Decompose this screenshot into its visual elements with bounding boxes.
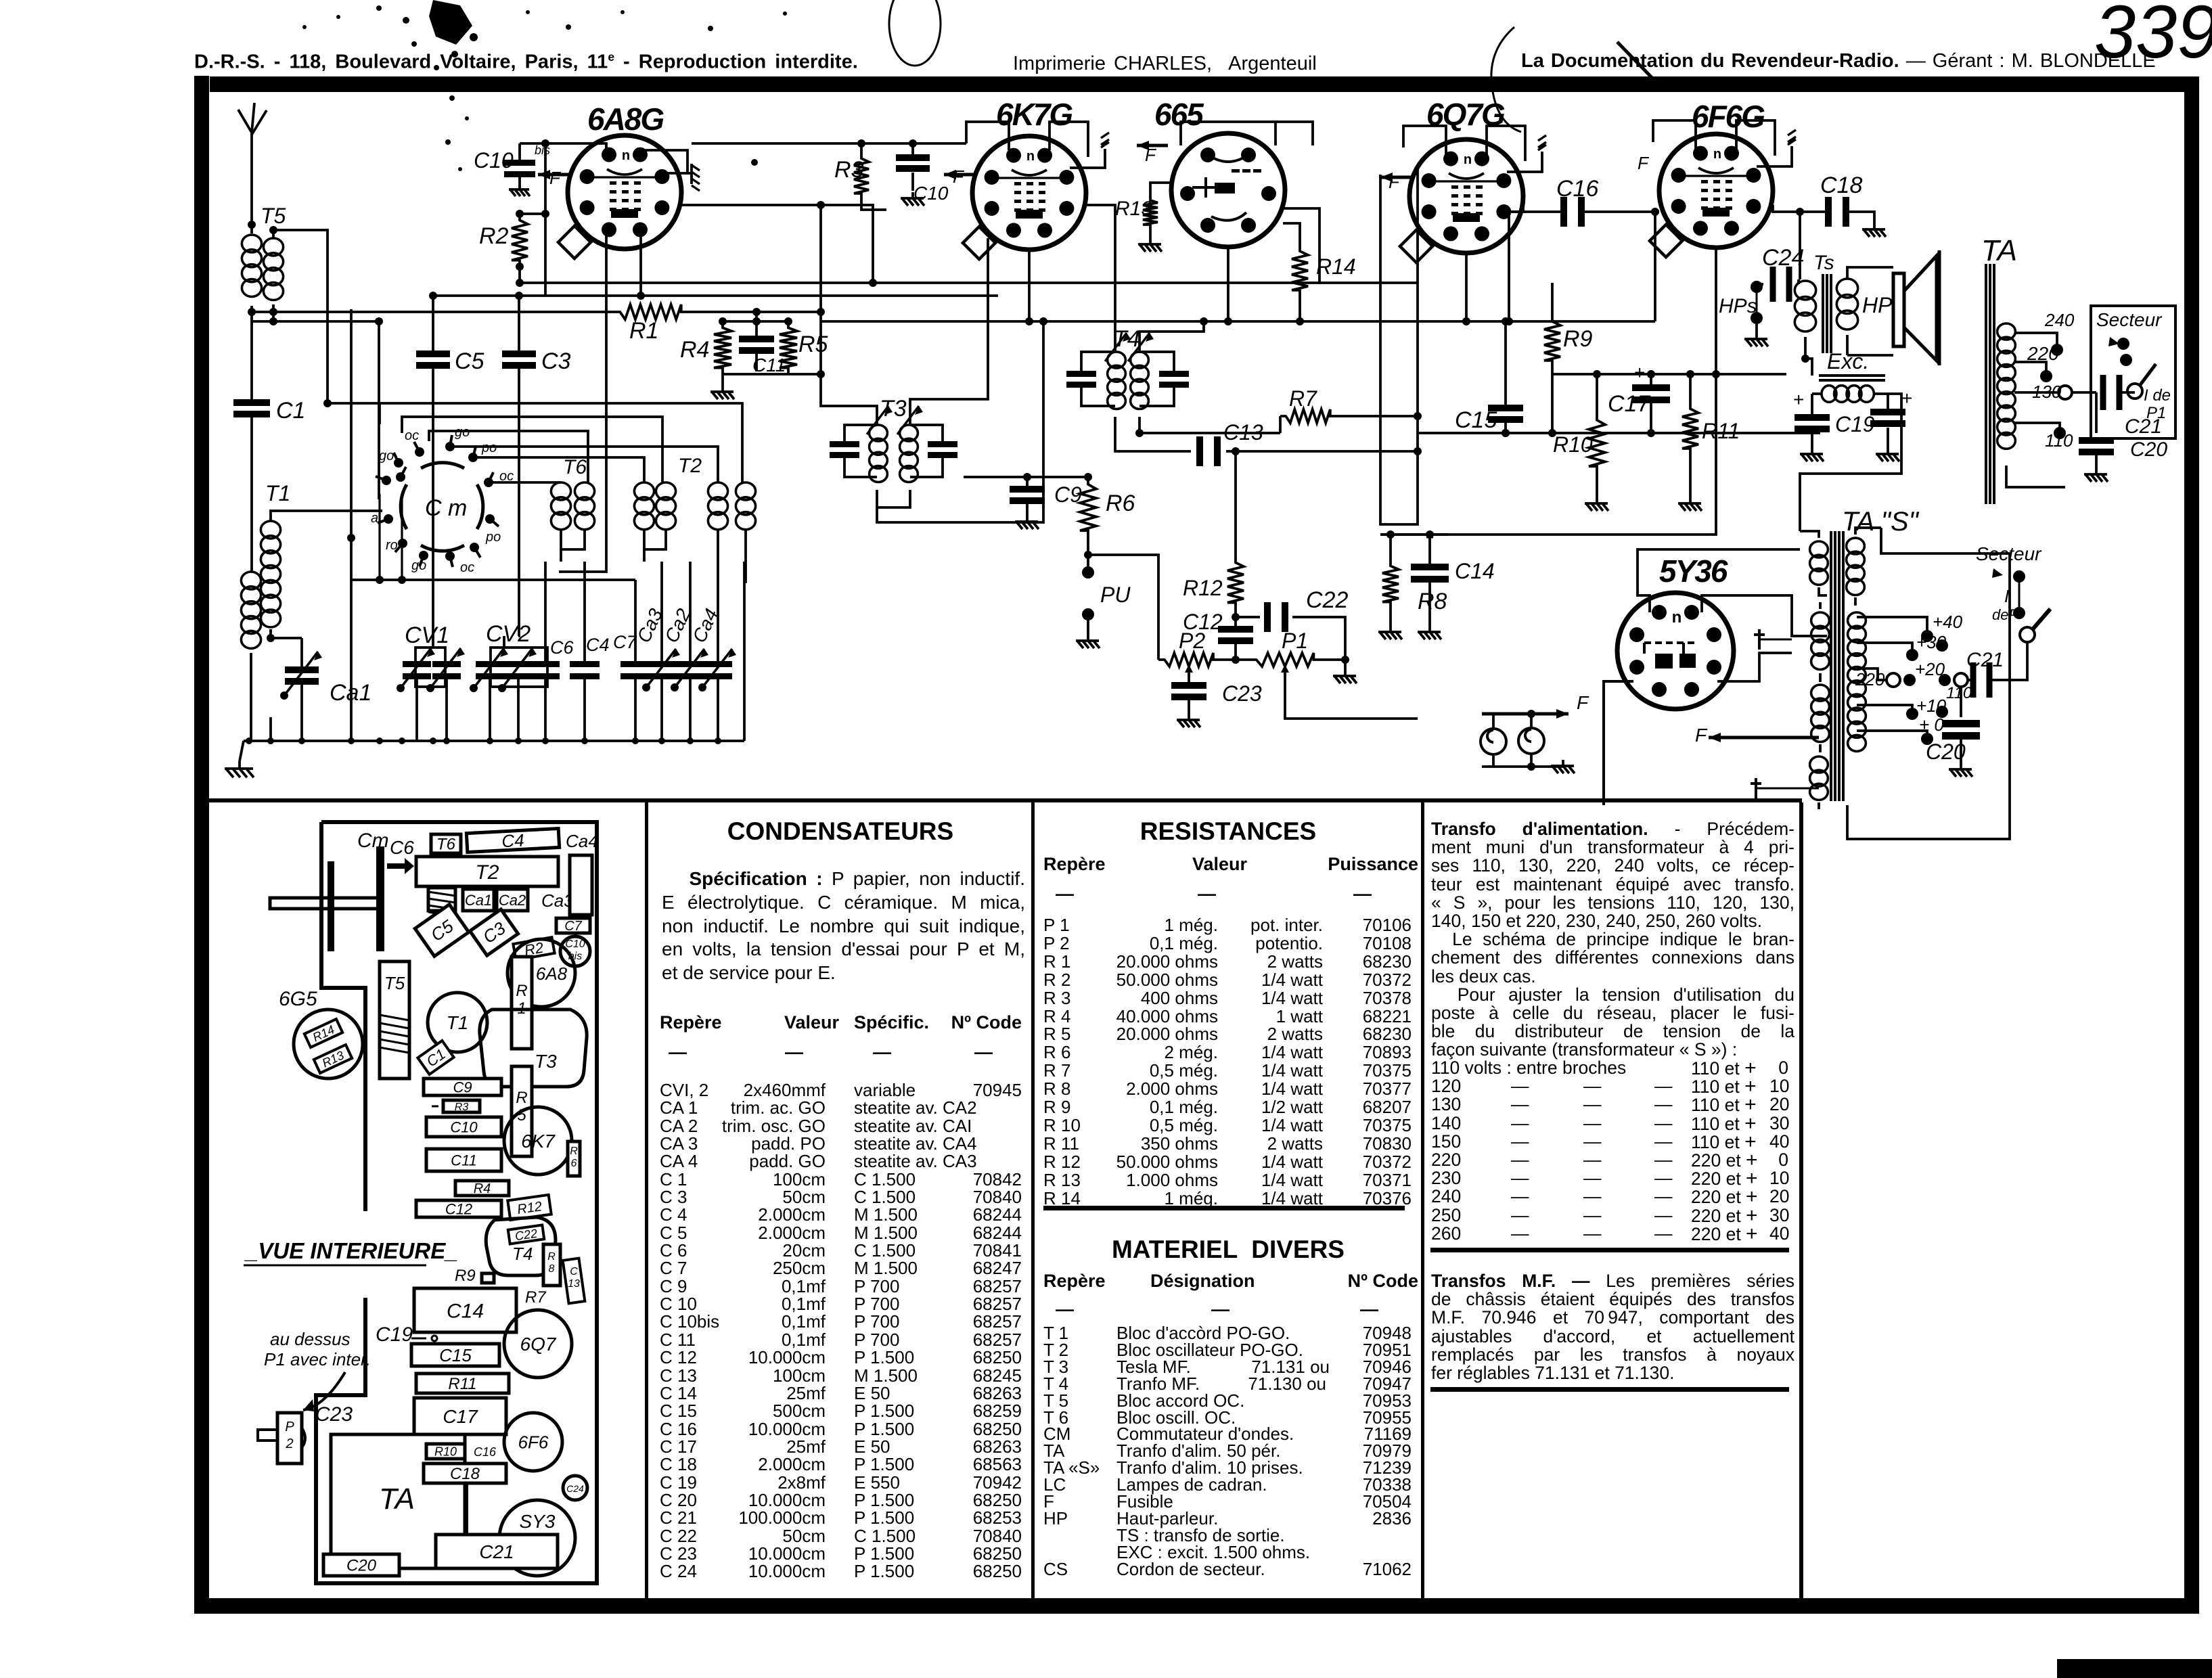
svg-text:R7: R7 [1289,386,1317,411]
TAS left winding bottom [1810,756,1828,773]
svg-text:go: go [379,449,394,463]
wire 6A8G plate line [681,205,873,283]
svg-text:6G5: 6G5 [279,988,317,1010]
wire C1 to T1 [250,417,253,572]
layout bar R6 [568,1141,580,1176]
tube 6Q7G [1409,139,1523,253]
layout box R12 skew [507,1195,551,1220]
TA tap 220 [2014,362,2046,371]
TAS left winding low [1811,685,1830,701]
capacitor C19 right [1887,394,1889,409]
svg-text:T2: T2 [678,455,702,477]
border frame [194,76,209,1614]
fold mark ring center [889,0,941,66]
wire run osc B [402,417,662,482]
TAS tap +30 [1906,649,1918,661]
wire bus B y437 [433,294,998,297]
layout box R10 [426,1444,465,1459]
layout box TA [331,1434,465,1568]
column divider 1 [645,802,648,1598]
capacitor C15 [1504,321,1507,405]
capacitor C24 [1770,267,1776,302]
resistor R13 [1143,195,1158,230]
svg-text:F: F [1638,153,1650,173]
wire C16 [1509,210,1562,213]
capacitor C7 [620,661,650,667]
TAS right winding top [1847,538,1865,554]
filament arrow 6Q7G [1380,176,1412,179]
svg-text:C20: C20 [346,1557,377,1575]
capacitor C13 [1196,436,1203,466]
svg-text:T5: T5 [261,204,286,228]
filament arrow 6A8G [538,173,572,177]
transformer T4 [1108,352,1126,368]
svg-text:C4: C4 [501,830,525,852]
svg-text:R1: R1 [629,318,658,344]
output transformer Ts [1797,279,1800,284]
wire 5Y3G left [1604,681,1633,805]
TAS tap +40 [1921,630,1933,642]
layout box C7 [556,918,590,934]
svg-text:6K7G: 6K7G [996,97,1073,132]
transformer TA winding [1997,323,2016,340]
svg-text:C4: C4 [586,635,610,655]
tube 6F6G [1659,134,1773,248]
svg-text:n: n [622,148,630,163]
wire 5Y3G plate top [1638,549,1800,612]
svg-text:C7: C7 [564,919,582,934]
svg-text:C10: C10 [565,938,585,950]
svg-text:_VUE INTERIEURE_: _VUE INTERIEURE_ [244,1238,458,1263]
wire 6G5 grid right [1283,208,1319,284]
potentiometer P2 [1158,653,1219,666]
svg-text:F: F [1577,692,1589,713]
speaker terminals HPs [1751,281,1763,293]
capacitor C16 [1560,197,1567,227]
svg-text:Secteur: Secteur [2096,309,2163,330]
svg-text:C10: C10 [450,1118,478,1135]
wire T3 primary top [821,371,877,425]
wire 6A8G top pins [643,150,692,173]
layout tall box right [570,855,592,915]
svg-text:R2: R2 [479,223,509,249]
svg-text:240: 240 [2044,310,2075,330]
wire 6F6G top pins [1653,120,1696,149]
wire R12 top [1234,451,1237,556]
layout box C3 skew [470,909,518,955]
svg-text:po: po [481,440,497,455]
wire C13 right [1226,450,1418,453]
svg-text:220: 220 [1855,669,1885,689]
capacitor C21 TA [2100,375,2106,410]
TAS tap +10 [1906,708,1918,720]
svg-text:R11: R11 [1702,419,1740,443]
wire T3 to 6K7G grid [910,296,988,425]
svg-text:6A8: 6A8 [536,963,568,984]
capacitor C1 [250,321,253,399]
svg-text:C22: C22 [1306,587,1348,613]
grid-cap 6K7G [1070,149,1105,168]
svg-text:220: 220 [2027,343,2059,364]
transformer TAS core [1830,531,1832,801]
wire vertical x1213 [819,205,822,371]
svg-text:CV1: CV1 [405,622,449,648]
transformer T5 [242,235,261,252]
wire contact go to T2b [450,447,718,482]
svg-text:C9: C9 [453,1079,472,1095]
wire left vertical A [350,309,353,538]
layout box C14 [414,1288,516,1332]
layout box C18 [424,1464,506,1483]
svg-text:C10: C10 [474,148,514,173]
svg-text:C18: C18 [450,1465,480,1483]
svg-text:R4: R4 [680,337,709,363]
wire T3 bottom to line [877,321,1043,522]
layout box C11 [426,1149,501,1171]
wire R8 C14 top line [1380,533,1448,536]
wire left vertical B [378,321,380,499]
capacitor T4 left [1066,371,1096,377]
svg-text:C24: C24 [566,1483,584,1494]
wire R9 [1551,283,1554,315]
svg-text:C13: C13 [1223,420,1263,445]
wire R13 to 6G5 [1150,183,1173,195]
wire exc to TAS [1800,394,1901,531]
resistor R5 [780,321,797,374]
wire run osc A [378,403,381,424]
pickup jack PU [1082,566,1094,579]
wire TA 130 to C21 [2072,391,2096,394]
transformer T6 [551,482,570,500]
layout bar R1 [512,957,532,1049]
wire R10 [1596,374,1598,413]
trimmer Ca4 [704,661,732,667]
svg-text:C20: C20 [1926,740,1966,764]
resistor R6 [1080,477,1096,538]
TAS left pin mark [1759,639,1792,641]
ground under C10bis [518,184,521,189]
layout box T2 [416,857,558,886]
svg-text:6K7: 6K7 [521,1131,556,1152]
column divider 4 [1799,802,1803,1598]
wire R4 C11 R5 top [723,320,788,323]
layout box C1 skew [417,1041,453,1074]
wire 5Y3G output [1717,653,1792,681]
wire antenna to T5 [250,173,253,233]
svg-text:R: R [570,1146,578,1157]
capacitor C23 [1188,677,1190,682]
speaker HP [1847,267,1893,279]
fold mark ring right [1491,27,1521,132]
svg-text:Secteur: Secteur [1976,543,2042,564]
svg-text:6: 6 [571,1158,577,1169]
layout box R11 [416,1374,509,1393]
wire R3 C10 top [692,142,966,145]
resistor R10 [1589,413,1605,474]
capacitor C3 [518,296,520,350]
capacitor C14 electrolytic [1428,535,1431,564]
TAS tap +20 [1903,674,1916,686]
svg-text:C14: C14 [447,1300,484,1322]
svg-text:5Y36: 5Y36 [1659,553,1728,589]
layout box R4 [455,1181,509,1196]
trimmer Ca3 [648,661,676,667]
svg-text:R3: R3 [455,1102,469,1113]
lamp ground [1562,760,1564,766]
svg-text:R3: R3 [834,157,864,183]
svg-text:C m: C m [425,495,467,521]
svg-text:T1: T1 [265,481,290,505]
svg-text:R10: R10 [434,1445,457,1458]
TA tap 240 [2014,333,2057,345]
svg-text:R11: R11 [448,1375,476,1393]
layout box T6 [431,834,461,854]
svg-text:SY3: SY3 [520,1511,556,1532]
svg-text:R13: R13 [1115,198,1152,220]
svg-text:C6: C6 [550,637,574,658]
trimmer Ca1 [300,638,303,666]
svg-text:C23: C23 [315,1403,353,1426]
svg-text:R6: R6 [1106,491,1135,516]
antenna [250,133,253,173]
svg-text:C19: C19 [1835,412,1875,436]
wire P1 wiper down [1285,677,1418,719]
layout box C21 [436,1535,558,1568]
grid-cap 6Q7G [1507,152,1542,172]
capacitor C4 [570,661,600,667]
capacitor C12 [1234,609,1237,626]
wire T1 tap to Ca1 [271,637,302,639]
resistor R8 [1382,560,1399,608]
svg-text:Ca2: Ca2 [499,892,526,909]
wire contact po to T2a [473,457,644,482]
svg-text:po: po [485,530,501,545]
svg-text:C11: C11 [752,355,786,376]
wire C12 to pots [1234,644,1237,660]
capacitor C17 electrolytic [1650,374,1652,384]
tube 6K7G [972,136,1086,250]
svg-text:R9: R9 [1563,326,1593,352]
resistor R2 [512,214,528,267]
wire 6F6G grid vertical [1654,212,1656,321]
wire R11 [1689,374,1692,403]
svg-text:C23: C23 [1222,681,1262,706]
layout circle C10bis [560,936,590,966]
layout box Ca2 [497,889,528,911]
layout box C15 [411,1344,499,1366]
svg-text:R4: R4 [474,1181,491,1196]
svg-text:CV2: CV2 [486,621,531,647]
capacitor T4 right [1159,371,1189,377]
field coil Exc [1819,374,1885,377]
svg-text:a: a [371,511,378,526]
wire contact oc to T6 [489,481,561,484]
svg-text:C5: C5 [455,348,484,374]
svg-text:C16: C16 [1556,176,1598,202]
capacitor C9 [1026,477,1029,486]
pen slash [1617,42,1663,89]
svg-text:+30: +30 [1916,632,1947,652]
svg-text:au dessus: au dessus [270,1329,351,1349]
wire 6Q7G left box [1380,168,1418,524]
layout circle 6A8 [507,939,575,1007]
svg-text:R14: R14 [1316,254,1356,279]
svg-text:deP: deP [1992,606,2018,623]
svg-text:n: n [1464,152,1472,167]
svg-text:HPs: HPs [1719,295,1757,317]
svg-text:C18: C18 [1820,173,1862,198]
wire AVC node [964,476,1088,478]
capacitor C22 [1264,602,1271,632]
wire 5Y3G plate 2 [1702,595,1827,636]
svg-text:130: 130 [2032,382,2062,402]
layout circle 6F6 [504,1413,562,1471]
layout box C17 [414,1398,506,1434]
svg-text:6A8G: 6A8G [587,101,664,137]
wire P1 right ground [1321,658,1345,661]
svg-text:C: C [570,1266,578,1277]
layout box Ca1 [463,889,494,911]
svg-text:T2: T2 [475,861,499,884]
wire PU branch [1088,555,1158,660]
wire T1 right coil bottom [269,717,272,741]
svg-text:I: I [2004,586,2009,606]
layout shape T3 [480,1010,587,1087]
capacitor C21 TAS [1968,679,1970,681]
svg-text:R8: R8 [1418,589,1447,614]
ground under C10 [911,192,914,198]
layout circle 6Q7 [504,1310,572,1378]
layout pot P2 [277,1413,302,1464]
layout shape T4 [486,1217,556,1275]
wire R14 ends [1283,223,1300,245]
svg-text:+40: +40 [1933,612,1963,632]
capacitor C11 [755,312,758,336]
wire TAS top loop [1881,528,1895,553]
capacitor C20 TA [2095,392,2098,433]
wire C18 [1773,205,1826,212]
resistor R3 [854,153,869,199]
resistor R9 [1544,315,1560,367]
layout circle 6K7 [504,1107,572,1175]
tube 6A8G [568,135,681,249]
trimmer Ca2 [676,661,704,667]
wire 6Q7G cathode [1465,253,1468,321]
wire bus A y418 [520,281,1418,284]
svg-text:C17: C17 [443,1406,478,1427]
variable capacitor CV2 [491,648,547,687]
svg-text:8: 8 [549,1263,555,1275]
wire T4 secondary top to bus [1139,321,1204,352]
layout box C4 skew [466,828,559,853]
TAS filament arrow [1709,736,1819,740]
layout coil hatch [428,888,455,911]
TAS right winding main [1848,612,1866,629]
variable capacitor CV1 [415,648,445,687]
mains box TA [2091,306,2175,438]
capacitor C18 [1825,197,1832,227]
section divider horizontal [209,798,1802,802]
svg-text:R5: R5 [798,332,828,357]
capacitor C6 [531,661,560,667]
svg-text:C21: C21 [1966,649,2004,671]
svg-text:+: + [1634,362,1645,383]
svg-text:C21: C21 [479,1541,514,1562]
tube 6G5 [1171,133,1285,247]
main ground [240,741,244,761]
layout tuning shaft [376,846,384,951]
resistor R7 [1280,409,1336,423]
svg-text:R: R [516,982,527,1000]
svg-text:665: 665 [1154,97,1204,132]
dial lamps LC [1481,729,1506,754]
layout circle C24 [563,1476,587,1500]
svg-text:T1: T1 [447,1012,469,1033]
chassis outline [316,822,597,1583]
layout box R8 [543,1244,560,1286]
svg-text:P: P [285,1420,294,1434]
svg-text:R7: R7 [525,1288,547,1307]
svg-text:F: F [549,168,562,188]
wire 6F6G cathode down [1715,248,1717,374]
wire 6G5 top [1181,122,1276,145]
svg-text:C16: C16 [474,1445,497,1459]
layout box R2 skew [513,937,554,961]
capacitor T3 right [928,441,957,447]
svg-text:Ca4: Ca4 [566,831,598,851]
svg-text:n: n [1713,147,1721,162]
tube 5Y3G [1617,593,1734,709]
svg-text:C21: C21 [2125,415,2162,438]
layout circle T1 [428,993,487,1052]
TAS tap +0 [1921,733,1933,745]
layout bar R5 [512,1066,532,1156]
potentiometer P1 [1249,653,1321,666]
transformer T1 [241,572,261,589]
resistor R4 [714,321,731,374]
svg-text:TA: TA [1981,234,2017,267]
capacitor C10bis [518,143,521,160]
svg-text:13: 13 [568,1278,580,1290]
svg-text:oc: oc [405,428,419,443]
layout box C5 skew [415,905,468,957]
svg-text:P2: P2 [1179,629,1205,653]
wire R6 bottom [1087,538,1089,568]
svg-text:R12: R12 [1183,576,1223,600]
svg-text:C14: C14 [1455,559,1495,583]
svg-text:C20: C20 [2130,438,2167,461]
svg-text:110: 110 [2045,430,2073,451]
transformer T3 [870,425,888,441]
ground under R4 [721,374,724,386]
TAS left winding top [1810,541,1828,558]
lamp F arrow [1531,712,1568,716]
column divider 3 [1421,802,1424,1598]
svg-text:C1: C1 [276,398,305,424]
layout box C12 [416,1200,501,1217]
svg-text:TA: TA [379,1482,415,1516]
wire 6A8G grid bottom left [605,233,608,237]
wire 6K7G below [987,238,989,296]
layout box C13 skew [563,1258,585,1304]
svg-text:T3: T3 [535,1051,557,1072]
wire osc vertical x908 [559,237,606,572]
transformer TA core [1985,264,1987,504]
svg-text:+ 0: + 0 [1919,715,1944,735]
wire Ts Exc link [1804,359,1812,376]
svg-text:Exc.: Exc. [1827,349,1869,373]
svg-text:C24: C24 [1762,245,1804,271]
